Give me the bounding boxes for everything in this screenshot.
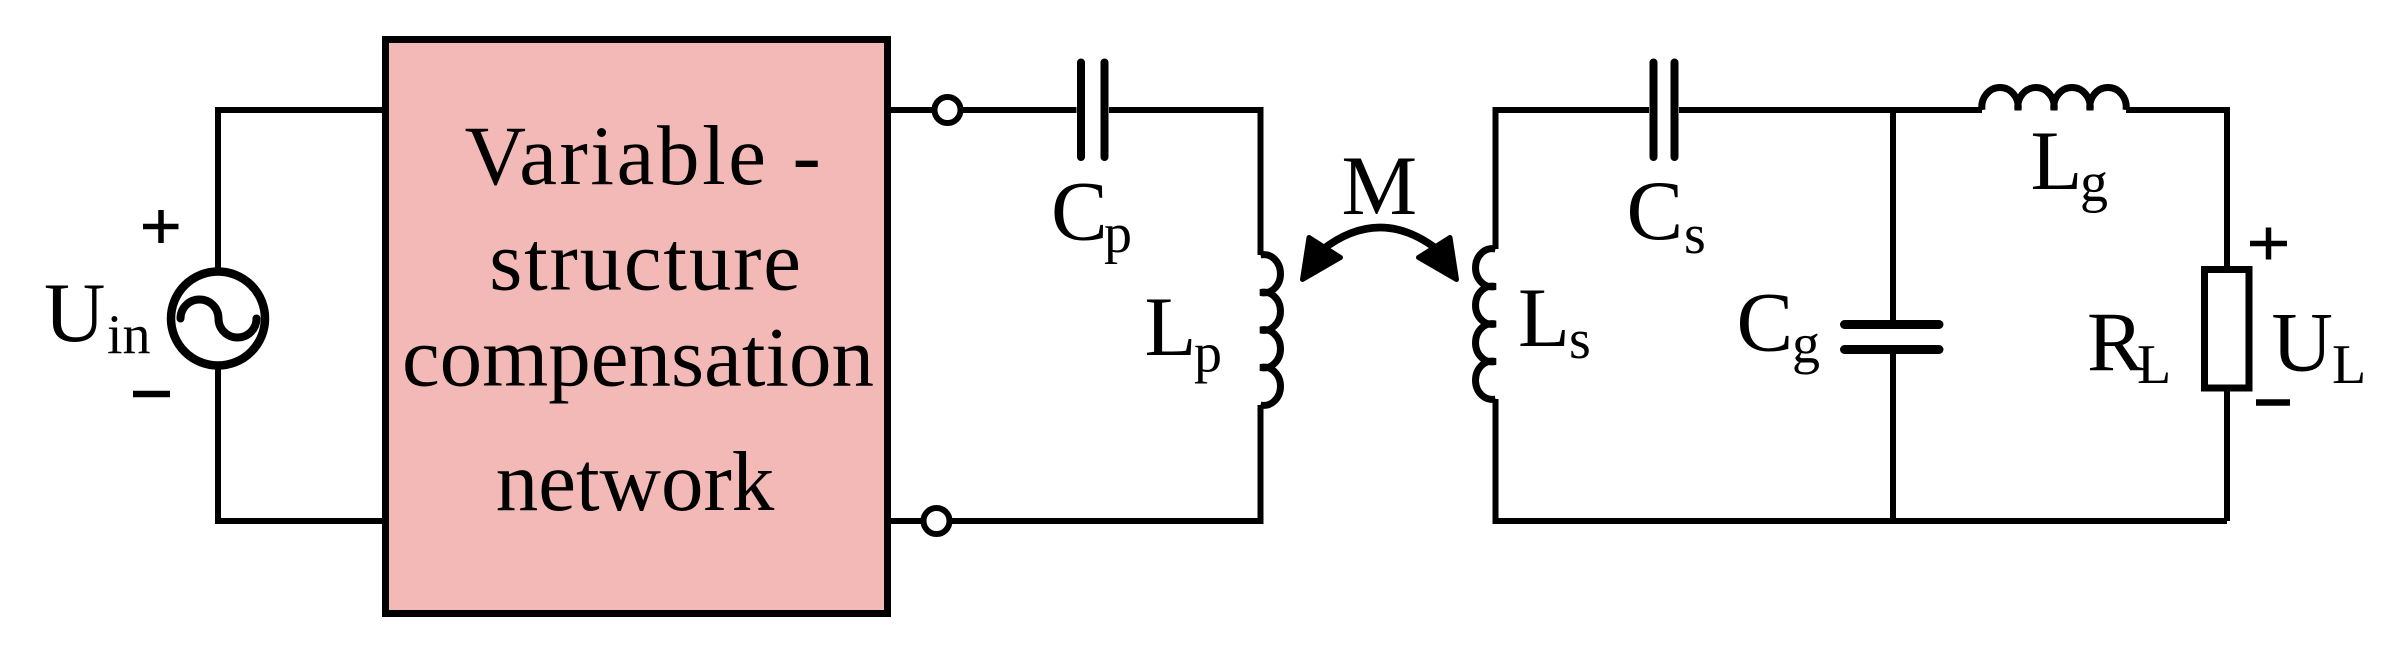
mutual coupling arc M [1322,228,1438,251]
inductor L_p coil [1261,255,1281,406]
wire C_s to L_g (through C_g junction) [1679,107,1982,113]
svg-text:L: L [1518,271,1570,365]
arrowhead right [1419,238,1457,280]
svg-text:C: C [1627,164,1684,258]
terminal node top [935,97,961,123]
svg-text:L: L [2031,114,2083,208]
wire L_g to right corner down to R_L [2126,110,2227,267]
svg-text:s: s [1684,204,1706,266]
wire L_p bottom to primary bottom [891,405,1261,521]
minus sign at source [133,391,170,398]
svg-text:M: M [1342,139,1418,233]
wire primary source loop top [218,110,386,271]
capacitor C_p plates [1081,63,1105,158]
svg-text:U: U [2272,296,2333,390]
resistor R_L body [2205,270,2250,389]
capacitor C_s plates [1654,63,1675,158]
svg-text:s: s [1569,309,1591,371]
capacitor C_g plates [1845,325,1940,350]
wire primary source loop bottom [218,366,386,521]
inductor L_g coil [1982,88,2126,110]
svg-text:Variable -: Variable - [465,109,824,203]
wire secondary left bottom [1496,399,2228,521]
svg-text:g: g [1792,314,1820,376]
AC source sine symbol [181,300,257,338]
svg-text:C: C [1737,276,1794,370]
wire secondary left top [1496,110,1650,249]
AC source U_in circle [171,272,265,366]
svg-text:structure: structure [489,215,803,309]
wire box to top terminal [891,107,1077,113]
svg-text:L: L [2332,334,2366,396]
plus sign at source [143,210,179,243]
svg-text:U: U [44,266,105,360]
svg-text:network: network [496,435,775,529]
minus sign at R_L [2256,399,2290,406]
wire R_L bottom to loop bottom [2224,389,2230,521]
capacitor C_g branch wire bottom [1890,354,1896,522]
svg-text:in: in [107,305,151,367]
wire C_p to top-right corner, down to L_p [1109,110,1261,255]
compensation network box [386,40,888,614]
svg-text:g: g [2080,152,2108,214]
svg-text:C: C [1051,165,1108,259]
svg-text:p: p [1194,323,1222,385]
arrowhead left [1303,238,1341,280]
inductor L_s coil [1476,249,1496,400]
svg-text:R: R [2087,296,2144,390]
svg-text:L: L [2137,334,2171,396]
terminal node bottom [924,508,950,534]
svg-text:p: p [1104,203,1132,265]
plus sign at R_L [2250,228,2287,260]
svg-text:compensation: compensation [402,311,874,405]
capacitor C_g branch wire top [1890,110,1896,321]
svg-text:L: L [1145,280,1197,374]
